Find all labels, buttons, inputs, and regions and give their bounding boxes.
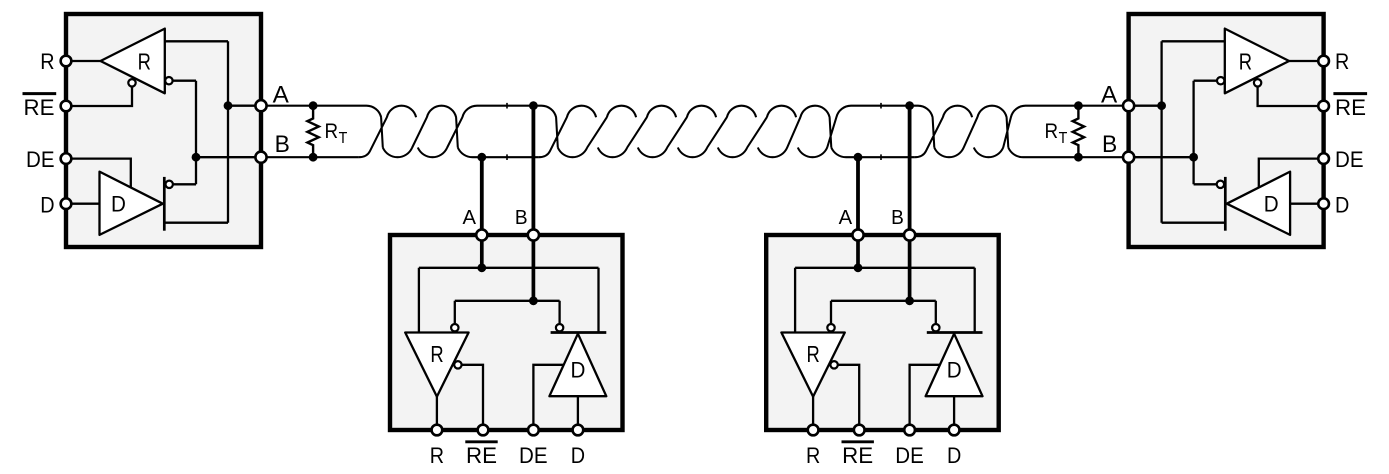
svg-text:RE: RE xyxy=(24,95,55,120)
svg-text:A: A xyxy=(463,207,477,229)
svg-text:D: D xyxy=(947,358,962,383)
svg-text:DE: DE xyxy=(1335,147,1364,172)
svg-text:A: A xyxy=(839,207,853,229)
svg-text:B: B xyxy=(275,131,290,158)
svg-text:DE: DE xyxy=(26,147,55,172)
svg-text:RE: RE xyxy=(1335,95,1366,120)
svg-text:R: R xyxy=(807,341,820,367)
svg-text:B: B xyxy=(1102,131,1117,158)
svg-text:B: B xyxy=(515,207,528,229)
svg-text:D: D xyxy=(571,358,586,383)
svg-text:D: D xyxy=(1335,192,1349,217)
svg-text:A: A xyxy=(273,81,289,108)
svg-text:R: R xyxy=(430,341,443,367)
svg-text:R: R xyxy=(1045,120,1059,143)
svg-text:RE: RE xyxy=(466,443,497,468)
svg-text:D: D xyxy=(947,443,961,468)
svg-text:RE: RE xyxy=(842,443,873,468)
svg-text:A: A xyxy=(1101,81,1117,108)
svg-text:D: D xyxy=(40,192,54,217)
svg-text:R: R xyxy=(325,120,339,143)
svg-text:R: R xyxy=(1239,49,1252,75)
svg-text:D: D xyxy=(571,443,585,468)
svg-text:R: R xyxy=(138,49,151,75)
svg-text:R: R xyxy=(430,443,444,468)
svg-text:DE: DE xyxy=(519,443,548,468)
svg-text:T: T xyxy=(1059,130,1068,147)
svg-text:D: D xyxy=(1264,192,1279,217)
svg-text:T: T xyxy=(339,130,348,147)
svg-text:B: B xyxy=(891,207,904,229)
svg-text:DE: DE xyxy=(895,443,924,468)
svg-text:R: R xyxy=(40,49,54,74)
svg-text:D: D xyxy=(111,192,126,217)
svg-text:R: R xyxy=(806,443,820,468)
svg-text:R: R xyxy=(1335,49,1349,74)
